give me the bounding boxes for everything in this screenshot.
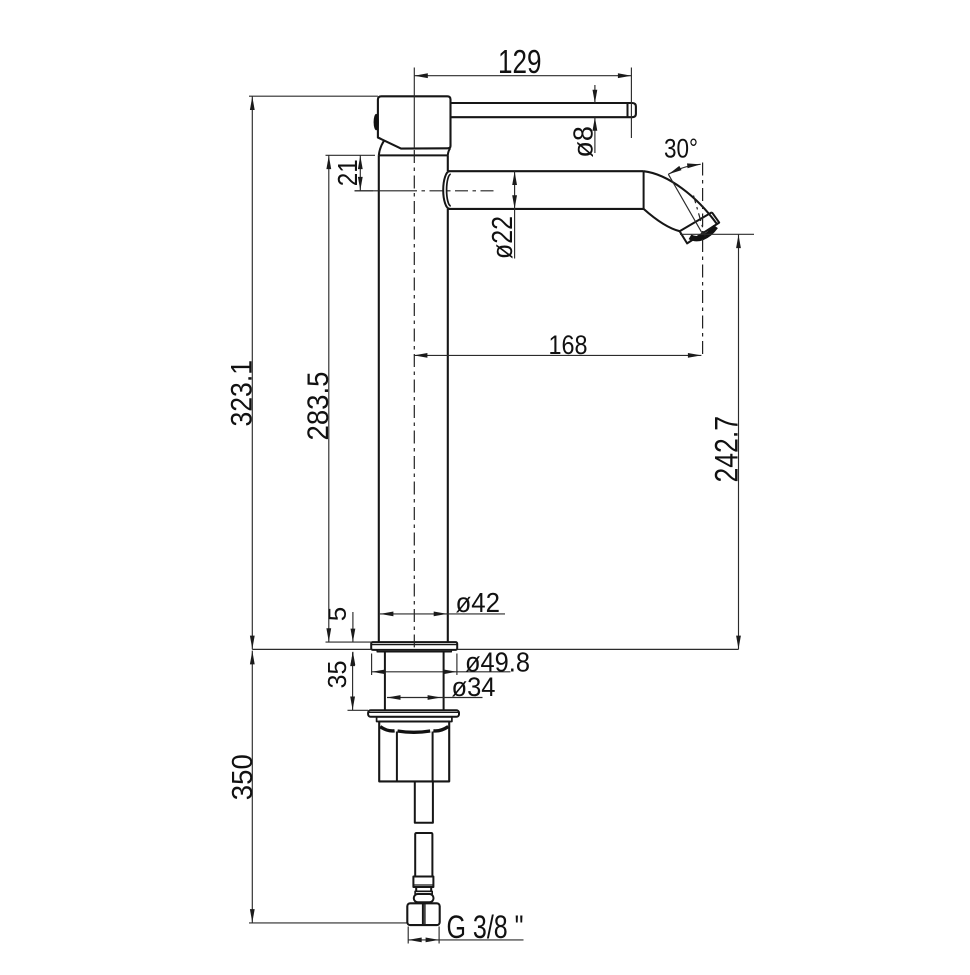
body column right edge upper [447, 155, 449, 171]
spout aerator dark arc [690, 227, 716, 239]
spout horizontal centerline [355, 190, 405, 192]
spout bottom edge [449, 208, 644, 210]
bottom extension line to G3/8 fitting [249, 922, 439, 924]
dimension 283.5 line [328, 155, 330, 642]
washer under lip [377, 717, 452, 722]
hose ferrule [413, 877, 433, 888]
counter reference line right [457, 648, 738, 650]
svg-text:ø42: ø42 [456, 587, 501, 618]
hose bead [414, 894, 434, 902]
dimension 168 line [414, 354, 702, 356]
neck shoulder right arc [448, 148, 450, 155]
threaded shank right line [443, 652, 445, 711]
dimension 242.7 line [738, 234, 740, 649]
spout outlet tilted centerline [694, 196, 706, 237]
nut thread shadow arc middle [398, 731, 431, 732]
nut thread shadow arc right [433, 727, 448, 731]
base flange under lip [377, 650, 451, 652]
dimension o34 line [387, 697, 483, 699]
svg-text:G 3/8 ": G 3/8 " [447, 909, 524, 945]
hose ferrule inner line [413, 884, 433, 886]
mounting nut outline [379, 722, 449, 782]
body column right edge lower [447, 209, 449, 642]
dimension 30deg leg line [668, 174, 703, 234]
extension line spout axis [355, 190, 374, 192]
base flange top face line [371, 644, 457, 646]
threaded shank left line [384, 652, 386, 711]
base flange plate [371, 642, 457, 650]
nut facet line right [432, 732, 434, 782]
extension line cap top [249, 95, 378, 97]
spout joint line [643, 171, 645, 209]
dimension o22 line [514, 171, 516, 258]
hose neck [416, 887, 431, 891]
G3/8 hex nut facet line b [424, 903, 426, 925]
svg-text:350: 350 [227, 754, 259, 800]
faucet handle cap body [378, 96, 451, 148]
svg-text:35: 35 [322, 661, 352, 689]
lock washer face line [368, 711, 459, 713]
body top edge [379, 154, 448, 156]
extension line washer top [348, 709, 369, 711]
dimension 323.1 line [251, 96, 253, 649]
spout left cap outer arc [443, 171, 449, 209]
handle set screw [374, 114, 379, 130]
lever end cap line [627, 103, 629, 117]
dimension 129 line [414, 75, 631, 77]
svg-text:283.5: 283.5 [302, 372, 335, 441]
dimension 350 line [251, 651, 253, 923]
svg-text:ø22: ø22 [487, 216, 519, 259]
dimension 129 extension right [630, 68, 632, 139]
svg-text:5: 5 [324, 607, 352, 622]
dimension o8 lines [594, 85, 596, 103]
G3/8 hex nut facet line a [422, 903, 424, 925]
body vertical centerline [413, 150, 415, 647]
dimension 5 lines [352, 612, 354, 642]
spout left cap inner arc [447, 174, 451, 206]
extension line neck top [326, 154, 376, 156]
spout tip ring line [680, 212, 712, 231]
dimension o49.8 line [372, 671, 511, 673]
G3/8 extension lines [407, 927, 409, 944]
dimension 30deg arc [668, 164, 700, 174]
nut facet line left [396, 732, 398, 782]
svg-text:ø34: ø34 [452, 672, 496, 702]
dimension G3/8 line [408, 939, 523, 941]
dimension 129 extension left [413, 68, 415, 149]
hose flare collar [415, 891, 432, 894]
svg-text:242.7: 242.7 [708, 416, 744, 483]
neck shoulder left arc [379, 141, 384, 155]
hose upper tube [415, 833, 432, 877]
extension line spout tip [680, 233, 754, 235]
dimension o42 line [380, 613, 505, 615]
spout tip end cap [680, 212, 720, 243]
nut thread shadow arc left [380, 727, 394, 731]
body column left edge [378, 155, 380, 642]
extension line flange top [326, 641, 372, 643]
svg-text:21: 21 [332, 159, 363, 186]
svg-text:168: 168 [549, 330, 588, 360]
supply rod [415, 781, 433, 822]
spout outer curve [644, 171, 717, 224]
counter reference line left [252, 648, 371, 650]
svg-text:323.1: 323.1 [225, 360, 258, 427]
dimension 21 line [359, 155, 361, 190]
spout inner curve [644, 209, 680, 231]
spout outlet vertical centerline [702, 163, 704, 358]
o49.8 extension lines [371, 654, 373, 676]
lock washer plate [368, 710, 459, 717]
spout top edge [449, 170, 644, 172]
svg-text:ø8: ø8 [567, 126, 598, 158]
svg-text:129: 129 [498, 43, 542, 80]
lever bar [451, 103, 636, 117]
svg-text:30°: 30° [664, 134, 698, 164]
dimension 35 line [352, 652, 354, 710]
G3/8 hex nut [407, 903, 439, 925]
